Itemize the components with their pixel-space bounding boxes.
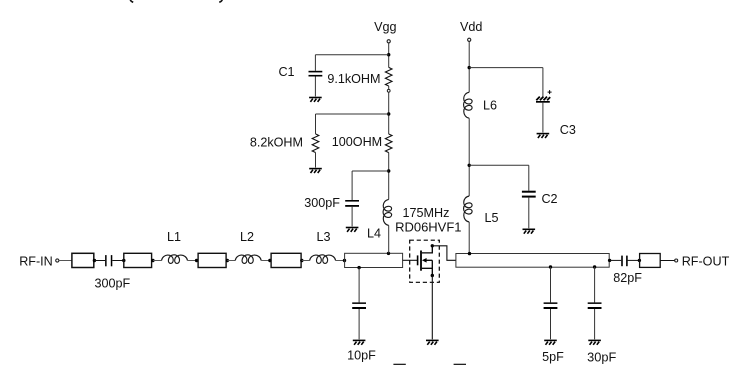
svg-text:Vdd: Vdd	[460, 20, 482, 34]
wire L2 to Z4	[261, 260, 271, 262]
wire 30pF to ground	[594, 309, 596, 339]
wire 8.2kOHM branch horizontal	[316, 113, 389, 115]
inductor L1	[162, 255, 188, 264]
node Z5 top to L4	[387, 252, 390, 255]
svg-text:C1: C1	[278, 65, 294, 79]
svg-text:L1: L1	[167, 230, 181, 244]
microstrip Z5 gate line	[345, 253, 403, 267]
capacitor C1	[309, 71, 323, 77]
node at Z7 input	[638, 259, 641, 262]
ground of 10pF	[353, 340, 366, 344]
node L5 / C2 branch	[468, 164, 471, 167]
inductor L5	[464, 196, 473, 222]
wire C1 top	[314, 55, 316, 71]
node at gate microstrip input	[343, 259, 346, 262]
ground of C1	[309, 98, 322, 102]
node at Z1 output	[93, 259, 96, 262]
ground of 5pF	[544, 340, 557, 344]
svg-text:30pF: 30pF	[587, 350, 616, 365]
wire 10pF shunt	[358, 268, 360, 303]
wire L1 to Z3	[188, 260, 199, 262]
svg-text:10pF: 10pF	[347, 349, 376, 363]
node at Z4 output	[300, 259, 303, 262]
microstrip Z3	[198, 253, 226, 267]
wire source to ground	[431, 276, 433, 340]
microstrip Z2	[124, 253, 152, 267]
node at Z3 output	[226, 259, 229, 262]
node at Z2 output	[151, 259, 154, 262]
wire gate lead	[403, 259, 417, 261]
svg-text:C2: C2	[541, 192, 557, 206]
wire 8.2kOHM to ground	[315, 153, 317, 168]
capacitor C3 bottom plate	[536, 101, 550, 103]
node at Z2 input	[122, 259, 125, 262]
node gate feed / 300pF branch	[387, 169, 390, 172]
capacitor C2	[522, 191, 536, 198]
transistor Q1 body lead	[426, 259, 432, 261]
node at Z3 input	[195, 259, 198, 262]
svg-text:L6: L6	[483, 99, 497, 113]
ground of C2	[523, 229, 536, 233]
microstrip Z1	[72, 253, 94, 267]
microstrip Z6 drain line	[456, 254, 609, 268]
node Z6 output	[608, 259, 611, 262]
svg-text:L4: L4	[367, 226, 381, 240]
svg-text:82pF: 82pF	[613, 271, 642, 285]
svg-text:Vgg: Vgg	[374, 20, 396, 34]
wire 300pF top	[351, 171, 353, 200]
ground of 300pF bias	[346, 228, 359, 232]
svg-text:300pF: 300pF	[95, 276, 131, 290]
ground of C3	[537, 134, 550, 138]
ground of source	[426, 340, 439, 344]
svg-text:L3: L3	[316, 230, 330, 244]
capacitor 5pF	[544, 302, 558, 309]
terminal RF-OUT	[675, 259, 678, 262]
svg-text:100OHM: 100OHM	[332, 135, 382, 149]
wire Z4 to L3	[302, 260, 310, 262]
wire C3 top	[542, 68, 544, 97]
wire L6 to node	[468, 118, 470, 196]
wire L4 to gate microstrip	[388, 225, 390, 253]
transistor Q1 drain lead	[422, 246, 432, 253]
wire Z6 to 82pF	[610, 259, 622, 261]
wire C3 to ground	[542, 103, 544, 133]
cropped caption fragment right	[454, 364, 466, 365]
wire L3 to gate microstrip	[336, 260, 345, 262]
inductor L2	[235, 255, 261, 264]
wire C1 to ground	[314, 77, 316, 97]
svg-text:8.2kOHM: 8.2kOHM	[250, 135, 303, 149]
capacitor C3 electrolytic plus sign	[548, 90, 552, 94]
microstrip Z7	[640, 254, 661, 268]
resistor 100OHM	[385, 134, 392, 153]
wire 9.1kOHM to node	[388, 92, 390, 134]
capacitor C3 electrolytic hatched plate	[536, 97, 550, 101]
transistor Q1 source lead	[422, 267, 432, 269]
wire Z2 to L1	[153, 260, 162, 262]
ground of 8.2kOHM	[309, 169, 322, 173]
wire C2 branch horizontal	[469, 164, 529, 166]
svg-text:C3: C3	[560, 123, 576, 137]
svg-text:RF-IN: RF-IN	[19, 254, 53, 268]
wire C2 to ground	[528, 198, 530, 229]
node Vdd / C3 branch	[468, 66, 471, 69]
transistor Q1 source vertical	[431, 260, 433, 275]
wire C3 branch horizontal	[469, 67, 543, 69]
wire RF-IN to Z1	[59, 260, 72, 262]
terminal Vdd	[468, 38, 471, 41]
wire 5pF to ground	[550, 309, 552, 339]
node Q1 source pin	[431, 274, 434, 277]
node Z6 bottom to 5pF	[549, 265, 552, 268]
node Vgg / C1 branch	[387, 53, 390, 56]
terminal Vgg	[387, 40, 390, 43]
ground of 30pF	[588, 340, 601, 344]
partial cropped ")" glyph at top	[219, 0, 222, 2]
node at Z4 input	[268, 259, 271, 262]
resistor 8.2kOHM	[312, 134, 319, 153]
capacitor 82pF output series	[621, 256, 627, 267]
terminal RF-IN	[56, 259, 59, 262]
node Z6 top to L5	[468, 252, 471, 255]
wire 30pF shunt	[594, 267, 596, 302]
inductor L6	[464, 92, 473, 118]
wire Z7 to RF-OUT	[660, 260, 675, 262]
partial cropped "(" glyph at top	[130, 0, 133, 2]
wire 82pF to Z7	[628, 259, 640, 261]
dashed package outline of RD06HVF1	[410, 240, 440, 282]
node Z6 bottom to 30pF	[593, 265, 596, 268]
wire Vgg down	[388, 43, 390, 67]
capacitor 300pF input series	[105, 255, 112, 266]
svg-text:L5: L5	[484, 211, 498, 225]
resistor 9.1kOHM	[385, 67, 392, 86]
wire 5pF shunt	[550, 267, 552, 302]
svg-text:L2: L2	[240, 230, 254, 244]
transistor Q1 MOSFET channel bar	[420, 251, 422, 271]
transistor Q1 MOSFET gate bar	[417, 255, 419, 265]
wire 100OHM to node	[388, 153, 390, 200]
wire C-in to Z2	[112, 260, 124, 262]
wire 300pF to ground	[351, 207, 353, 227]
svg-text:300pF: 300pF	[304, 196, 340, 210]
node bias divider	[387, 112, 390, 115]
inductor L4	[383, 199, 392, 225]
svg-text:RF-OUT: RF-OUT	[682, 254, 730, 268]
wire L5 to drain microstrip	[468, 222, 470, 254]
wire C1 branch horizontal	[315, 54, 388, 56]
wire Z1 to C-in	[94, 260, 105, 262]
pin circle below 9.1kOHM	[387, 89, 390, 92]
wire C2 top	[528, 165, 530, 190]
wire Z3 to L2	[227, 260, 235, 262]
capacitor 30pF	[588, 302, 602, 309]
inductor L3	[310, 255, 336, 264]
wire Vdd down	[468, 42, 470, 92]
capacitor 300pF bias	[345, 200, 359, 207]
node Q1 drain pin	[431, 244, 434, 247]
wire drain to output microstrip	[432, 246, 456, 260]
transistor Q1 body arrow	[422, 258, 427, 263]
microstrip Z4	[271, 253, 301, 267]
wire 10pF to ground	[358, 309, 360, 339]
svg-text:5pF: 5pF	[542, 350, 564, 364]
cropped caption fragment left	[393, 364, 405, 365]
node Z5 bottom to 10pF	[357, 266, 360, 269]
wire 8.2kOHM top	[315, 114, 317, 134]
capacitor 10pF	[352, 302, 366, 309]
wire 9.1kOHM stub	[388, 86, 390, 90]
svg-text:175MHz: 175MHz	[403, 206, 450, 220]
svg-text:9.1kOHM: 9.1kOHM	[327, 72, 380, 86]
wire 300pF branch horizontal	[352, 170, 389, 172]
svg-text:RD06HVF1: RD06HVF1	[395, 220, 461, 235]
